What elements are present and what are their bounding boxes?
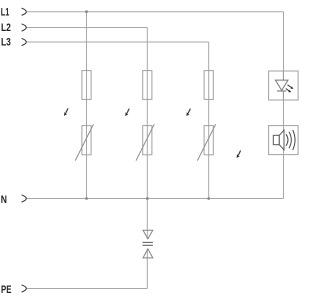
junction node L1 column [85, 10, 88, 13]
wire L3 [27, 41, 209, 43]
wire N [27, 198, 284, 200]
varistor RV1 [75, 124, 93, 160]
svg-text:L3: L3 [1, 36, 11, 48]
indicator box buzzer [269, 126, 299, 155]
junction node N column 2 [146, 197, 149, 200]
svg-text:L1: L1 [1, 7, 10, 19]
wire PE [27, 288, 147, 290]
indicator box LED [269, 71, 299, 100]
terminal N [22, 195, 27, 202]
buzzer acoustic indicator [273, 126, 295, 155]
terminal L3 [22, 38, 27, 45]
svg-text:N: N [1, 194, 7, 206]
wire column L3 branch [208, 42, 210, 199]
disconnector arrow column 3 [186, 109, 190, 117]
junction node N column 1 [85, 197, 88, 200]
wire column L2 branch lower [146, 249, 148, 289]
wire indicator branch upper [283, 12, 285, 71]
wire indicator branch middle [283, 100, 285, 126]
LED indicator [275, 72, 293, 100]
varistor RV2 [136, 124, 154, 160]
fuse F3 [204, 71, 213, 100]
disconnector arrow column 2 [125, 109, 129, 117]
disconnector arrow indicator [237, 151, 241, 159]
svg-text:PE: PE [1, 284, 12, 296]
fuse F2 [143, 71, 152, 100]
fuse F1 [82, 71, 91, 100]
wire L1 [27, 11, 284, 13]
junction node N column 3 [207, 197, 210, 200]
gas discharge tube N-PE [143, 230, 153, 258]
wire indicator branch lower [283, 155, 285, 199]
terminal L1 [22, 8, 27, 15]
disconnector arrow column 1 [64, 108, 68, 116]
wire L2 [27, 27, 147, 29]
varistor RV3 [197, 124, 215, 160]
wire column L1 branch [86, 12, 88, 199]
wire column L2 branch [146, 28, 148, 239]
terminal PE [22, 285, 27, 292]
terminal L2 [22, 24, 27, 31]
svg-text:L2: L2 [1, 22, 11, 34]
